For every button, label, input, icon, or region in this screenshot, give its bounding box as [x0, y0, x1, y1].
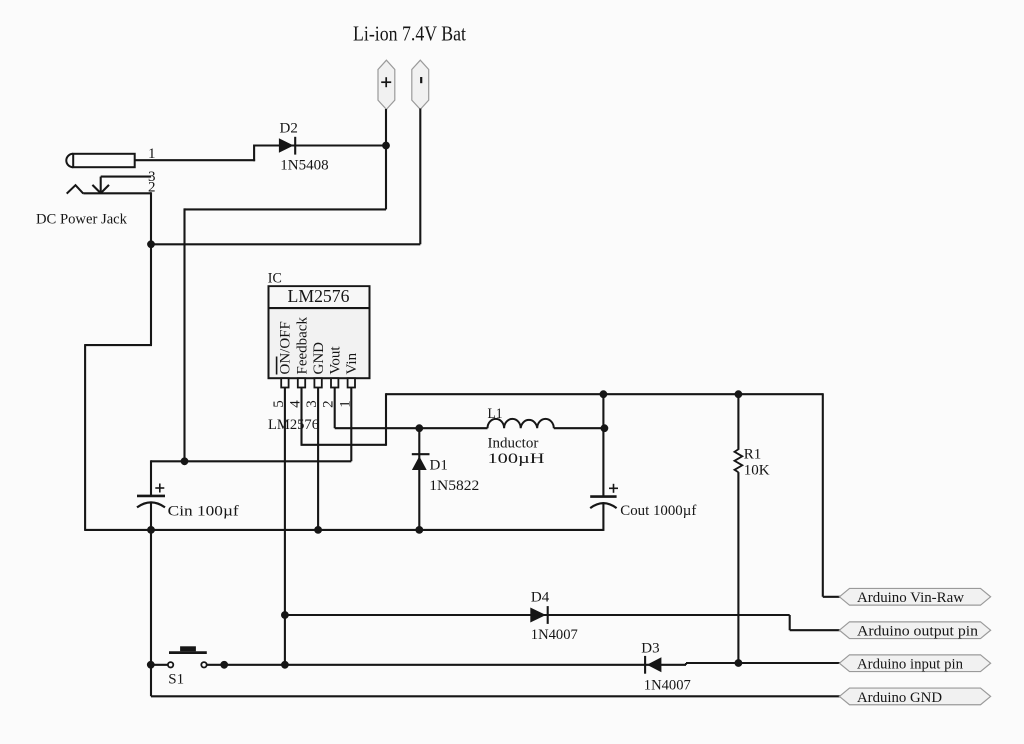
wire left rail vertical: [84, 344, 86, 531]
svg-text:Vin: Vin: [344, 352, 360, 374]
switch S1: [168, 646, 207, 667]
node S1 left junction: [147, 661, 155, 669]
svg-text:Arduino Vin-Raw: Arduino Vin-Raw: [857, 590, 964, 606]
svg-text:D3: D3: [641, 640, 659, 656]
node pin5 / S1 row: [281, 661, 289, 669]
wire pin3 vertical to ground: [317, 388, 319, 530]
resistor R1: [735, 393, 743, 664]
wire top rail y=394.2: [386, 393, 823, 395]
svg-text:GND: GND: [311, 342, 327, 375]
svg-text:1N5822: 1N5822: [429, 478, 479, 494]
IC pin box 4: [298, 378, 305, 387]
wire input row right: [686, 662, 840, 664]
wire ground row y=529.9: [85, 529, 603, 531]
wire jog left at y=345: [85, 344, 152, 346]
wire pin2 vertical: [334, 388, 336, 429]
svg-text:Inductor: Inductor: [488, 436, 539, 452]
diode D4: [530, 606, 547, 624]
wire pin2 vertical: [150, 192, 152, 345]
wire pin5 vertical to switch row: [284, 388, 286, 665]
node ground/Cin: [147, 526, 155, 534]
wire riser at x=254: [253, 145, 255, 162]
svg-text:Cin 100µf: Cin 100µf: [168, 504, 239, 520]
wire battery + vertical: [385, 109, 387, 209]
flag Arduino GND: [839, 688, 990, 706]
node pin5 / D4 row: [281, 611, 289, 619]
flag Arduino input pin: [839, 655, 990, 673]
diode D2: [279, 137, 295, 155]
wire feedback riser x=386: [385, 393, 387, 446]
svg-text:D2: D2: [280, 121, 298, 137]
wire D4 corner down: [789, 615, 791, 630]
svg-text:L1: L1: [488, 406, 503, 422]
node Vout/D1/L1 junction: [415, 424, 423, 432]
node battery feed / pin1 row: [181, 457, 189, 465]
wire battery - vertical: [419, 109, 421, 245]
wire battery + horizontal to x=184.5: [185, 208, 387, 210]
svg-text:R1: R1: [744, 446, 762, 462]
wire feedback row y=444.8: [301, 444, 387, 446]
DC power jack barrel pin 1: [66, 154, 134, 167]
svg-text:D1: D1: [430, 457, 448, 473]
battery + terminal flag: [378, 60, 395, 109]
node top rail / R1: [735, 390, 743, 398]
svg-text:S1: S1: [168, 671, 184, 687]
svg-text:DC Power Jack: DC Power Jack: [36, 211, 127, 227]
inductor L1: [488, 419, 554, 428]
wire D2 row: [254, 144, 386, 146]
wire Vin-Raw drop vertical: [822, 393, 824, 597]
wire jack pin3 stub: [101, 176, 151, 178]
IC pin box 5: [281, 378, 288, 387]
label + for Cout: [609, 484, 618, 493]
node ground/D1: [415, 526, 423, 534]
flag Arduino Vin-Raw: [839, 588, 990, 606]
wire jog at x=686: [685, 663, 687, 665]
wire Cout net vertical: [602, 393, 604, 496]
node R1 / input row: [735, 659, 743, 667]
wire to Vin-Raw flag: [823, 596, 840, 598]
wire pin1 row to Cin: [151, 460, 351, 462]
svg-text:1N4007: 1N4007: [644, 677, 691, 693]
capacitor Cout: [590, 497, 616, 509]
capacitor Cin: [137, 460, 165, 696]
node top rail / Cout net: [600, 390, 608, 398]
node S1 output dot: [220, 661, 228, 669]
battery - terminal flag: [412, 60, 429, 109]
label + for Cin: [155, 484, 164, 493]
IC pin box 1: [348, 378, 355, 387]
svg-text:Li-ion 7.4V Bat: Li-ion 7.4V Bat: [353, 22, 466, 46]
wire S1 row left stub: [151, 664, 168, 666]
wire Vout row to inductor: [335, 427, 488, 429]
wire battery - row to jack node: [151, 243, 420, 245]
svg-text:2: 2: [148, 180, 156, 196]
node D2 battery + junction: [382, 142, 390, 150]
diode D1 symbol: [412, 454, 430, 470]
wire pin1 vertical: [350, 388, 352, 462]
wire D4 row y=615: [285, 614, 790, 616]
svg-text:Arduino output pin: Arduino output pin: [857, 624, 979, 640]
svg-text:Cout 1000µf: Cout 1000µf: [620, 503, 696, 519]
node L1 output junction: [601, 424, 609, 432]
svg-text:LM2576: LM2576: [268, 417, 319, 433]
node jack pin2 battery - junction: [147, 240, 155, 248]
svg-text:Vout: Vout: [328, 346, 344, 375]
svg-text:100µH: 100µH: [488, 451, 545, 467]
svg-text:1N4007: 1N4007: [531, 627, 578, 643]
flag Arduino output pin: [839, 622, 990, 640]
svg-text:Arduino input pin: Arduino input pin: [857, 657, 963, 673]
svg-text:LM2576: LM2576: [288, 286, 350, 306]
diode D3: [645, 656, 661, 674]
op-amp/regulator IC U1 LM2576 box: [269, 286, 370, 378]
jack pin 3 arrow: [92, 177, 109, 194]
jack spring contact symbol: [67, 185, 84, 193]
wire jack pin2 row: [83, 192, 151, 194]
svg-text:Arduino GND: Arduino GND: [857, 690, 942, 706]
node ground/pin3: [314, 526, 322, 534]
svg-text:Feedback: Feedback: [294, 317, 310, 375]
wire D1 vertical: [418, 427, 420, 531]
wire to output flag: [790, 629, 840, 631]
svg-text:IC: IC: [268, 270, 282, 286]
IC pin box 3: [314, 378, 321, 387]
wire S1 row to D3: [207, 664, 686, 666]
svg-text:1N5408: 1N5408: [280, 158, 328, 174]
IC pin box 2: [331, 378, 338, 387]
wire GND row y=696.3: [151, 695, 840, 697]
svg-text:1: 1: [148, 146, 156, 162]
svg-text:10K: 10K: [744, 463, 770, 479]
wire pin4 vertical: [300, 388, 302, 445]
svg-text:D4: D4: [531, 589, 550, 605]
overline for ON: [276, 357, 278, 375]
wire + feed vertical to Cin node: [183, 208, 185, 461]
wire jack pin1 to D2: [135, 159, 255, 161]
svg-text:ON/OFF: ON/OFF: [278, 321, 294, 374]
